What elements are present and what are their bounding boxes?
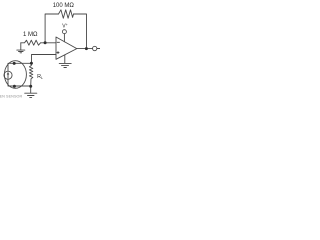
V+ supply terminal circle <box>62 30 66 34</box>
resistor 100 MΩ (feedback, horizontal zigzag) <box>59 10 74 18</box>
svg-text:EN SENSOR: EN SENSOR <box>0 94 22 98</box>
svg-text:1 MΩ: 1 MΩ <box>23 32 38 38</box>
op-amp inverting input marking <box>57 41 60 43</box>
op-amp U1 triangle <box>56 37 77 59</box>
current source arrow (up) <box>7 74 9 78</box>
node: output feedback junction <box>85 47 88 50</box>
svg-text:100 MΩ: 100 MΩ <box>53 3 75 9</box>
resistor RL (vertical zigzag) <box>29 63 32 86</box>
wire: top rail right lead and right vertical down to output node <box>74 14 87 49</box>
node: RL top junction <box>30 62 33 65</box>
node: inverting input junction <box>44 41 47 44</box>
resistor 1 MΩ (horizontal zigzag) <box>21 40 41 45</box>
ground: bottom under RL/sensor rail <box>25 86 37 97</box>
wire: output stub to edge <box>97 48 100 50</box>
current source arrowhead <box>7 72 10 75</box>
wire: feedback left vertical from inverting node up to top rail <box>45 14 58 43</box>
ground: op-amp V- pin from triangle bottom edge <box>59 55 71 68</box>
current source I1 circle <box>4 71 12 79</box>
wire: inverting input row from 1 MΩ to op-amp <box>41 42 57 44</box>
wire: non-inverting input from RL top node <box>32 55 57 64</box>
svg-text:V+: V+ <box>62 23 67 30</box>
wire: sensor top lead to RL top node <box>8 63 31 71</box>
node: sensor top terminal <box>13 62 16 65</box>
svg-text:RL: RL <box>37 74 43 80</box>
output terminal circle <box>93 46 97 50</box>
wire: sensor bottom lead to ground rail <box>8 79 31 86</box>
node: bottom ground junction <box>29 85 32 88</box>
node: sensor bottom terminal <box>13 85 16 88</box>
ground: under 1 MΩ left terminal <box>17 43 25 53</box>
sensor body (outer circle) <box>4 61 26 89</box>
op-amp non-inverting input marking <box>57 51 60 54</box>
V+ supply terminal stem <box>63 34 65 42</box>
wire: op-amp output <box>77 48 93 50</box>
